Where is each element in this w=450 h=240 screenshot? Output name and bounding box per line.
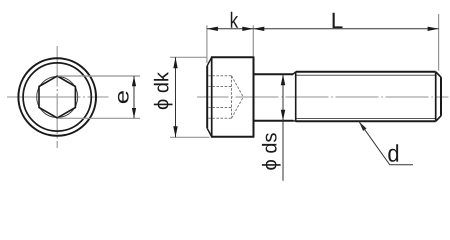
socket cone hidden upper <box>232 76 244 97</box>
head right face <box>253 57 255 136</box>
dim L arrow left <box>253 27 264 31</box>
tip chamfer start line <box>435 72 437 122</box>
label L <box>333 13 343 28</box>
socket bottom hidden <box>231 76 233 118</box>
dim k arrow right <box>242 27 253 31</box>
thread root top <box>297 74 436 76</box>
label e <box>118 91 129 103</box>
head bottom edge <box>211 136 255 138</box>
thread root bottom <box>297 118 436 120</box>
label phi dk <box>154 72 173 109</box>
dim e extension bottom <box>58 117 141 119</box>
dim k extension left <box>206 25 208 63</box>
thread runout top <box>293 72 296 74</box>
dim e line <box>133 76 135 118</box>
label d <box>388 144 398 162</box>
dim dk extension top <box>170 56 207 58</box>
dim dk arrow up <box>173 57 177 68</box>
dim L line <box>253 28 438 30</box>
dim e extension top <box>58 75 141 77</box>
socket hidden top outer <box>208 75 231 77</box>
socket hidden top inner <box>208 86 231 88</box>
hex socket <box>39 76 75 118</box>
label phi ds <box>262 133 281 169</box>
front view vertical centerline <box>56 46 58 148</box>
dim L extension right <box>438 14 440 71</box>
head top chamfer <box>207 57 212 65</box>
side view centerline <box>197 96 449 98</box>
dim L arrow right <box>428 27 439 31</box>
leader d line <box>360 122 414 165</box>
head bottom chamfer <box>207 128 212 136</box>
dim e arrow down <box>132 108 136 118</box>
label k <box>231 12 238 28</box>
tip end face <box>440 77 442 116</box>
socket cone hidden lower <box>232 97 244 118</box>
dim k arrow left <box>207 27 218 31</box>
thread crest bottom <box>296 120 436 122</box>
thread crest top <box>296 71 436 73</box>
leader d arrow <box>359 122 367 131</box>
head chamfer circle <box>23 63 91 131</box>
dim k L shared extension <box>252 25 254 56</box>
head outer circle <box>18 58 96 136</box>
tip top chamfer <box>436 72 441 77</box>
thread runout bottom <box>293 120 296 123</box>
dim dk arrow down <box>173 126 177 137</box>
thread start line <box>295 72 297 122</box>
front view horizontal centerline <box>7 96 109 98</box>
socket hidden bottom inner <box>208 107 231 109</box>
dim k line <box>207 28 253 30</box>
dim ds line <box>282 74 284 181</box>
shank bottom edge <box>254 120 294 122</box>
socket hidden bottom outer <box>208 117 231 119</box>
dim dk line <box>175 57 177 137</box>
dim ds arrow down <box>281 110 285 121</box>
shank top edge <box>254 73 294 75</box>
dim ds arrow up <box>281 74 285 85</box>
head chamfer edge line <box>211 57 213 136</box>
dim dk extension bottom <box>170 136 210 138</box>
dim e arrow up <box>132 76 136 86</box>
tip bottom chamfer <box>436 116 441 122</box>
head left face <box>206 66 208 129</box>
socket chamfer circle <box>37 77 78 118</box>
head top edge <box>211 56 255 58</box>
